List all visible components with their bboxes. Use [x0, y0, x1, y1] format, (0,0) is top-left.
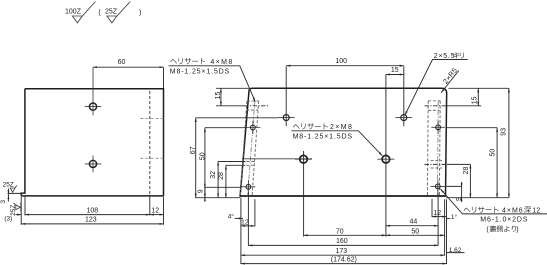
dimension 12 bottom-left: [241, 225, 255, 227]
svg-text:12: 12: [241, 219, 249, 226]
svg-text:2×M8: 2×M8: [330, 124, 353, 131]
right slot axis centerline: [437, 101, 440, 196]
svg-text:28: 28: [218, 172, 225, 180]
drill hole D1 (5.5): [283, 115, 289, 121]
dimension 123: [21, 223, 163, 225]
slot hole S2 centerlines: [241, 180, 255, 194]
svg-text:M6-1.0×2DS: M6-1.0×2DS: [480, 217, 528, 224]
svg-text:(: (: [486, 227, 489, 234]
dimension 15 right: [477, 88, 479, 106]
dimension (174.62): [241, 263, 447, 265]
svg-text:25Z: 25Z: [105, 9, 118, 16]
dimension 9 right: [447, 182, 462, 202]
dimension (3): [16, 214, 22, 216]
left slot end caps: [246, 101, 259, 165]
svg-text:15: 15: [391, 67, 399, 74]
dimension 15 top: [386, 74, 404, 76]
hidden line: hole row lower: [140, 157, 163, 159]
dimension 50 bottom: [386, 234, 445, 236]
dimension 93: [508, 88, 510, 197]
right angled slot hidden lines: [427, 101, 440, 196]
dimension 100: [286, 65, 404, 67]
svg-text:44: 44: [410, 219, 418, 226]
svg-text:12: 12: [433, 210, 441, 217]
dimension 50 left: [205, 127, 246, 129]
svg-text:(: (: [98, 9, 101, 16]
dimension 173: [241, 254, 445, 256]
side view bottom edge: [21, 195, 163, 197]
svg-text:M8-1.25×1.5DS: M8-1.25×1.5DS: [293, 133, 353, 140]
label helisert 4xM6 depth12: [464, 208, 471, 212]
hole P1 centerlines: [85, 67, 102, 115]
drill hole D2 centerlines: [395, 117, 412, 119]
dimension 70: [304, 234, 386, 236]
slot hole S4: [435, 184, 440, 189]
hidden line: thread depth: [149, 91, 151, 196]
dimension 67: [196, 117, 278, 119]
tapped hole M1 (M8): [300, 155, 308, 163]
svg-text:(174.62): (174.62): [331, 257, 357, 264]
svg-text:160: 160: [336, 238, 348, 245]
dimension 32: [218, 161, 245, 163]
slot hole S2: [246, 184, 251, 189]
svg-text:1°: 1°: [451, 213, 458, 221]
extension lines below: [241, 192, 447, 264]
svg-text:32: 32: [210, 171, 217, 179]
right slot end caps: [428, 101, 442, 168]
front view plate outline: [240, 88, 447, 196]
svg-text:70: 70: [336, 228, 344, 235]
svg-text:M8-1.25×1.5DS: M8-1.25×1.5DS: [170, 69, 230, 76]
svg-text:12: 12: [151, 207, 159, 214]
top extension right: [447, 88, 509, 106]
slot hole S3: [436, 125, 441, 130]
dimension 108: [25, 214, 150, 216]
hidden line: hole row upper: [140, 117, 163, 119]
svg-text:123: 123: [85, 217, 97, 224]
bottom extension left: [195, 197, 240, 199]
svg-text:67: 67: [190, 146, 197, 154]
svg-text:12: 12: [532, 207, 540, 214]
middle row centerline: [242, 158, 312, 160]
extension lines bottom: [21, 197, 163, 225]
slot hole S1: [251, 125, 256, 130]
svg-text:): ): [139, 9, 141, 16]
svg-text:108: 108: [86, 207, 98, 214]
bottom extension right: [446, 197, 509, 199]
front view bottom edge: [240, 195, 445, 197]
dimension 15 left: [216, 88, 249, 106]
svg-text:9: 9: [197, 189, 204, 193]
hole P2 centerlines: [85, 156, 102, 173]
svg-text:50: 50: [490, 149, 497, 157]
dimension 44: [386, 225, 438, 227]
svg-text:2×R5: 2×R5: [442, 67, 459, 86]
dimension 50 right: [446, 127, 497, 129]
dimension 160: [248, 244, 438, 246]
slot hole S4 centerlines: [431, 180, 447, 194]
dimension 12 bottom-right: [432, 216, 446, 218]
drill hole D2 (5.5): [401, 115, 407, 121]
svg-text:(3): (3): [4, 215, 12, 222]
label helisert 4xM8: [170, 59, 177, 63]
slot hole S3 centerlines: [431, 121, 445, 135]
left angled slot hidden lines: [240, 101, 258, 196]
slot hole S1 centerlines: [246, 121, 261, 135]
left slot axis centerline: [248, 101, 255, 196]
drill hole D1 centerlines: [278, 117, 295, 119]
tapped hole M2 centerlines: [377, 158, 394, 160]
svg-text:25Z: 25Z: [3, 181, 14, 188]
svg-text:60: 60: [118, 59, 126, 66]
svg-text:100Z: 100Z: [65, 9, 82, 16]
svg-text:4×M8: 4×M8: [210, 59, 233, 66]
svg-text:): ): [516, 227, 518, 234]
svg-text:15: 15: [471, 96, 478, 104]
hole P1: [89, 103, 96, 110]
dimension 9 left: [205, 183, 241, 202]
label 2xR5: [441, 71, 459, 93]
tapped hole M2 (M8): [382, 155, 390, 163]
label helisert 2xM8: [293, 124, 300, 128]
dimension 12 (side view): [150, 214, 164, 216]
tapped hole M1 centerlines: [295, 158, 312, 160]
side view plate outline: [21, 89, 163, 196]
hole P2: [89, 160, 96, 167]
svg-text:173: 173: [335, 248, 347, 255]
dimension 60: [163, 67, 165, 88]
svg-text:28: 28: [463, 167, 470, 175]
svg-text:3: 3: [0, 200, 7, 204]
dimension 28 left: [226, 164, 245, 166]
svg-text:4°: 4°: [228, 212, 235, 220]
svg-text:50: 50: [411, 228, 419, 235]
svg-text:50: 50: [199, 152, 206, 160]
dimension 3 (step): [8, 189, 22, 202]
svg-text:93: 93: [501, 128, 508, 136]
svg-text:4×M6: 4×M6: [502, 207, 524, 214]
dimension 28 right: [447, 163, 470, 165]
svg-text:15: 15: [215, 92, 222, 100]
svg-text:100: 100: [335, 58, 347, 65]
